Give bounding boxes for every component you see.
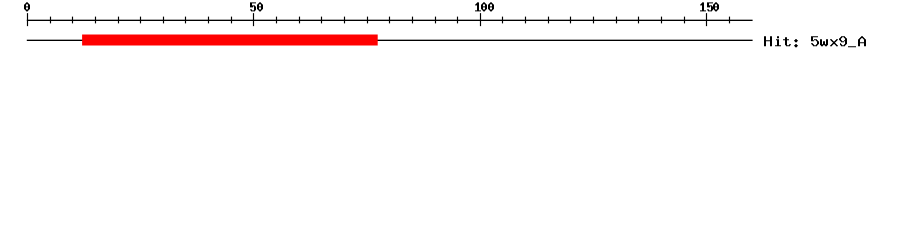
major ticks at 0/50/100/150 <box>27 13 707 26</box>
hit label text "Hit: 5wx9_A" <box>764 36 866 47</box>
alignment hit coverage bar (red) <box>82 35 378 46</box>
ruler axis line (core row + upper fringe) <box>27 20 753 21</box>
ruler label 150 <box>700 2 719 11</box>
ruler label 50 <box>250 2 263 11</box>
ruler label 0 <box>24 2 30 11</box>
ruler label 100 <box>475 2 494 11</box>
minor ticks every 5 residues <box>50 17 730 24</box>
query sequence line (core row + upper fringe) <box>27 40 753 41</box>
